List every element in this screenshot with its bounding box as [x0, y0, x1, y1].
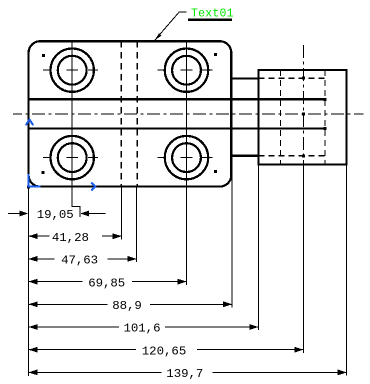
neck bottom line: [231, 155, 259, 157]
hidden vertical line in boss left (dashed): [280, 70, 282, 164]
hole H1 top-left outer circle: [50, 48, 93, 91]
dimension 101,6 line: [29, 326, 259, 328]
vertex dot boss center bottom: [302, 155, 305, 158]
extension line common left: [28, 187, 30, 376]
hole H3 bottom-left outer circle: [50, 136, 93, 179]
dimension 19,05 line: [8, 213, 106, 215]
leader line for Text01: [155, 12, 187, 40]
boss rectangle outline: [259, 70, 347, 164]
dimension 47,63 arrows: [29, 256, 137, 262]
leader underline under Text01: [188, 19, 232, 22]
dimension 139,7 line: [29, 371, 347, 373]
vertex dot body bottom-right: [214, 170, 217, 173]
dimension 88,9 line: [29, 303, 233, 305]
hidden vertical line in boss right (dashed): [324, 70, 326, 164]
vertex dot centerline crossing at boss axis: [302, 113, 305, 116]
dimension 120,65 arrows: [29, 347, 304, 353]
crosshair horizontal hole H4: [157, 157, 212, 159]
hidden vertical line in body left (dashed): [120, 41, 122, 186]
svg-text:88,9: 88,9: [112, 299, 142, 313]
crosshair horizontal hole H3: [43, 157, 98, 159]
vertical axis line through left holes: [71, 41, 73, 186]
blue direction arrow right on bottom edge: [91, 183, 95, 191]
vertex dot left edge bottom: [27, 185, 30, 188]
extension line x=72 with jog to x=80 (dim 19,05 right): [72, 187, 80, 217]
dimension 19,05 arrows: [20, 211, 90, 217]
blue selected corner L at body bottom-left: [29, 174, 41, 187]
crosshair horizontal hole H2: [157, 69, 212, 71]
hole H2 top-right inner circle: [172, 56, 201, 85]
dimension 101,6 arrows: [29, 324, 259, 330]
extension line dim 47,63 right: [136, 187, 138, 262]
dimension 41,28 arrows: [29, 233, 122, 239]
extension line dim 88,9 right: [231, 173, 233, 308]
hidden line bottom inside boss (dashed): [259, 155, 326, 157]
hole H1 top-left inner circle: [58, 56, 87, 85]
vertex dot bore bottom end: [324, 127, 327, 130]
vertex dot bore top end: [324, 98, 327, 101]
dimension 120,65 line: [29, 349, 304, 351]
crosshair horizontal hole H1: [43, 69, 98, 71]
boss vertical centerline (dash-dot): [302, 45, 304, 164]
bore line bottom: [29, 127, 325, 129]
dimension 69,85 line: [29, 281, 187, 283]
svg-text:69,85: 69,85: [88, 276, 125, 290]
leader arrowhead: [155, 33, 162, 40]
svg-text:41,28: 41,28: [52, 231, 89, 245]
extension line dim 120,65 right: [302, 164, 304, 353]
hole H3 bottom-left inner circle: [58, 143, 87, 172]
hole H4 bottom-right inner circle: [172, 143, 201, 172]
dimension 88,9 arrows: [29, 301, 233, 307]
svg-text:101,6: 101,6: [124, 322, 161, 336]
extension line dim 41,28 right: [121, 187, 123, 239]
svg-text:19,05: 19,05: [37, 208, 74, 222]
neck top line: [231, 77, 259, 79]
vertex dot boss center top: [302, 76, 305, 79]
extension line dim 139,7 right: [346, 164, 348, 375]
svg-text:47,63: 47,63: [61, 254, 98, 268]
vertex dot body top-left: [42, 54, 45, 57]
vertex dot body bottom-left: [42, 171, 45, 174]
dimension 69,85 arrows: [29, 279, 187, 285]
extension line dim 101,6 right: [258, 164, 260, 330]
svg-text:Text01: Text01: [191, 8, 234, 21]
hidden vertical line in body right (dashed): [136, 41, 138, 186]
vertex dot body top-right: [214, 53, 217, 56]
bore line top (solid, body through neck into boss): [29, 98, 325, 100]
extension line dim 69,85 right: [186, 187, 188, 285]
blue direction arrow up on left edge: [26, 120, 33, 126]
dimension 47,63 line: [29, 258, 137, 260]
vertical axis line through right holes: [186, 41, 188, 186]
svg-text:120,65: 120,65: [142, 344, 187, 358]
horizontal centerline (dash-dot): [13, 113, 364, 115]
hidden line top inside boss (dashed): [259, 77, 326, 79]
hole H4 bottom-right outer circle: [165, 136, 208, 179]
main body rounded-rectangle outline: [29, 41, 232, 186]
svg-text:139,7: 139,7: [166, 367, 203, 381]
dimension 139,7 arrows: [29, 370, 347, 376]
dimension 41,28 line: [29, 235, 122, 237]
hole H2 top-right outer circle: [165, 48, 208, 91]
